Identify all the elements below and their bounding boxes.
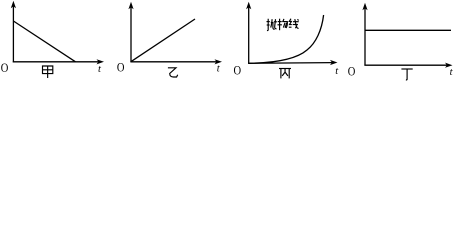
graph1 y-axis — [12, 7, 14, 63]
graph2 caption 乙 — [168, 68, 178, 77]
graph4 y-axis — [364, 9, 366, 66]
graph1 origin label O — [1, 60, 9, 75]
graph4 y-axis arrowhead — [362, 3, 367, 11]
graph2 y-axis arrowhead — [128, 2, 133, 10]
graph3 t label — [335, 66, 339, 77]
graph1 caption 甲 — [43, 66, 53, 78]
svg-text:O: O — [1, 60, 9, 75]
graph3 x-axis — [248, 62, 332, 65]
graph2 y-axis — [130, 8, 132, 63]
graph2 t label — [217, 63, 221, 74]
graph4 t label — [450, 67, 454, 78]
svg-text:O: O — [117, 59, 125, 74]
graph1 y-axis arrowhead — [11, 1, 16, 9]
svg-text:O: O — [234, 63, 242, 78]
graph1 x-axis arrowhead — [97, 59, 105, 64]
graph3 parabola curve — [249, 15, 324, 63]
graph1 descending line — [13, 21, 75, 62]
graph3 curve label 抛物线 — [267, 19, 277, 31]
graph4 x-axis arrowhead — [445, 63, 453, 68]
graph2 x-axis arrowhead — [215, 59, 223, 64]
graph3 y-axis — [248, 8, 250, 64]
graph4 origin label O — [348, 63, 356, 78]
graph4 constant horizontal line — [365, 29, 451, 31]
svg-text:O: O — [348, 63, 356, 78]
graph1 t label — [98, 64, 102, 75]
graph3 y-axis arrowhead — [246, 2, 251, 10]
graph1 x-axis — [13, 61, 99, 63]
graph4 x-axis — [364, 64, 447, 66]
graph3 x-axis arrowhead — [330, 60, 338, 65]
graph4 caption 丁 — [401, 69, 412, 80]
graph2 x-axis — [130, 61, 216, 63]
graph2 rising line — [131, 19, 195, 62]
graph3 caption 丙 — [279, 69, 291, 79]
graph3 origin label O — [234, 63, 242, 78]
graph2 origin label O — [117, 59, 125, 74]
